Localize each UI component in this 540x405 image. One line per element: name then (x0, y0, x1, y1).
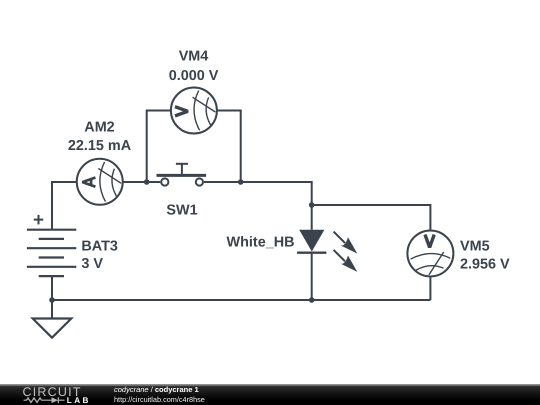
wire: SW1 right to LED anode (204, 182, 312, 230)
wire: battery positive to AM2 left (52, 182, 77, 230)
node: junction SW1/VM4 (238, 179, 244, 185)
logo resistor squiggle (24, 398, 52, 403)
LED cathode bar (297, 251, 326, 253)
footer credit line (114, 385, 199, 394)
LED light arrow 1 (334, 232, 358, 254)
battery plus sign (34, 215, 44, 225)
wire: LED cathode down to bottom rail (311, 253, 313, 300)
node: junction AM2/VM4 (144, 179, 150, 185)
footer url line (114, 395, 205, 404)
footer bar (0, 384, 540, 405)
wire: VM4 right branch (217, 111, 241, 183)
wire: battery negative to ground (51, 276, 53, 318)
node: junction LED/VM5 branch (309, 202, 315, 208)
node: junction LED/bottom rail (309, 297, 315, 303)
ammeter AM2 (77, 159, 123, 205)
logo diode (52, 397, 59, 403)
voltmeter VM5 (407, 230, 453, 276)
LED White_HB diode triangle (299, 230, 324, 252)
wire: VM5 bottom to bottom rail (429, 277, 431, 301)
wire: branch to VM5 top (312, 205, 431, 231)
node: junction battery/bottom rail (49, 297, 55, 303)
switch SW1 (157, 164, 207, 186)
ground (33, 319, 72, 338)
wire: bottom rail (52, 299, 430, 301)
battery BAT3 (27, 230, 76, 276)
wire: AM2 right to SW1 left (123, 181, 161, 183)
wire: VM4 left branch (147, 111, 171, 183)
voltmeter VM4 (171, 88, 217, 134)
svg-text:LAB: LAB (67, 396, 91, 405)
LED light arrow 2 (334, 250, 358, 272)
